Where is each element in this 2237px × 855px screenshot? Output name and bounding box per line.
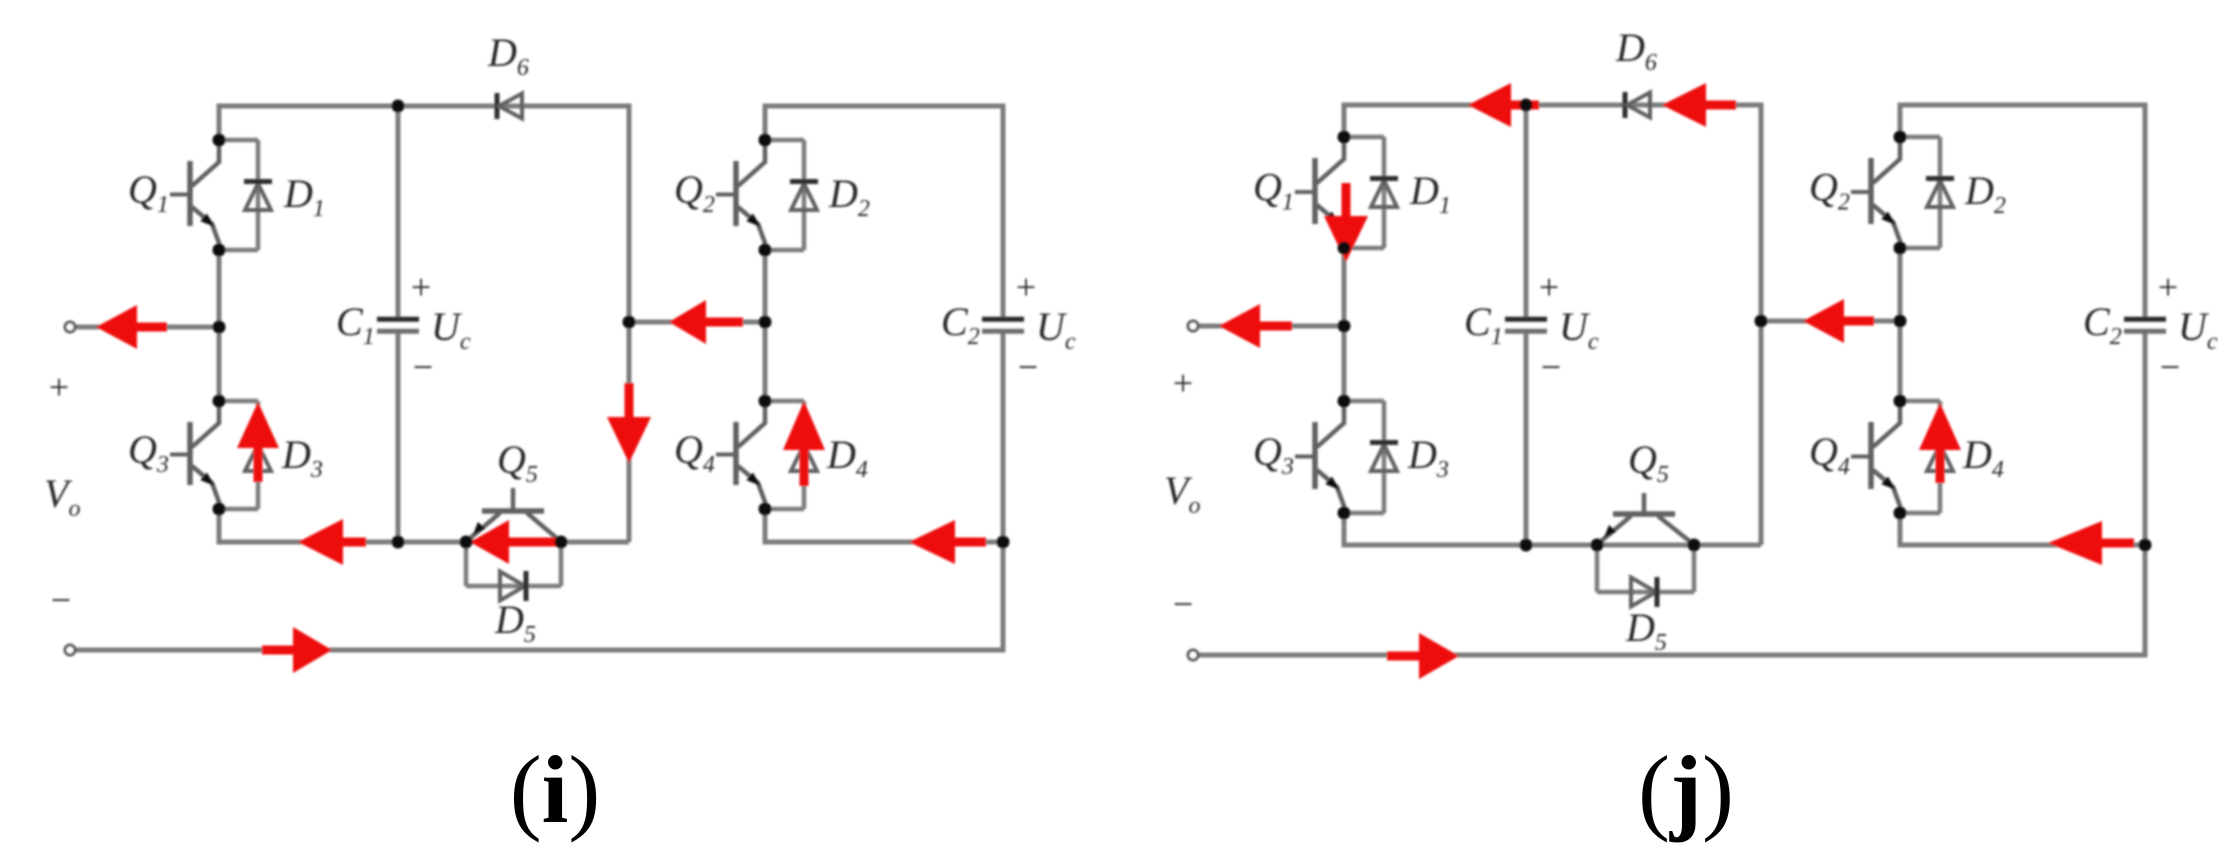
wire C2 column lower (j) bbox=[2143, 333, 2148, 658]
diode D4b bbox=[1900, 401, 1954, 513]
wire left rail Q1-Q3 (j) bbox=[1342, 248, 1347, 401]
terminal output − (j) bbox=[1188, 650, 1198, 660]
node Q3 collector (j) bbox=[1338, 395, 1351, 408]
wire right rail upper (i) bbox=[763, 104, 768, 141]
current arrow D3 up (i) bbox=[237, 402, 279, 448]
wire right riser of D6 (j) bbox=[1759, 103, 1764, 546]
node Q3 collector (i) bbox=[213, 395, 226, 408]
wire right rail upper (j) bbox=[1898, 103, 1903, 138]
wire right rail Q2-Q4 (i) bbox=[763, 250, 768, 401]
wire C2 column (j) bbox=[2143, 103, 2148, 320]
node Q4 collector (i) bbox=[759, 395, 772, 408]
current arrow bottom right left (i) bbox=[909, 520, 955, 564]
wire C1 top lead bbox=[396, 106, 401, 317]
node C2 bottom (j) bbox=[2139, 539, 2152, 552]
svg-text:+: + bbox=[1539, 267, 1559, 307]
transistor Q5 bbox=[466, 488, 561, 542]
transistor Q4 bbox=[716, 401, 765, 509]
wire C1b bottom lead bbox=[1524, 333, 1529, 545]
svg-text:−: − bbox=[1173, 584, 1193, 624]
node C1 bottom (i) bbox=[392, 536, 405, 549]
wire left rail Q1-Q3 (i) bbox=[217, 250, 222, 401]
node right rail mid (j) bbox=[1894, 315, 1907, 328]
node Q2 emitter (j) bbox=[1894, 242, 1907, 255]
wire lower bus right section (j) bbox=[1898, 543, 2146, 548]
node Q2 collector (j) bbox=[1894, 131, 1907, 144]
node C1 top (i) bbox=[392, 100, 405, 113]
transistor Q3b bbox=[1295, 401, 1344, 513]
node C1 bottom (j) bbox=[1520, 539, 1533, 552]
diode D1b bbox=[1344, 137, 1398, 248]
svg-text:(i): (i) bbox=[510, 736, 601, 843]
diode D1 bbox=[219, 140, 272, 250]
wire C2 column lower (i) bbox=[1001, 333, 1006, 653]
wire mid link (j) bbox=[1761, 319, 1900, 324]
svg-text:+: + bbox=[411, 267, 431, 307]
wire output + lead (i) bbox=[74, 325, 219, 330]
wire C1 bottom lead bbox=[396, 333, 401, 542]
svg-text:(j): (j) bbox=[1638, 736, 1734, 843]
node Q1 emitter (i) bbox=[213, 244, 226, 257]
svg-text:−: − bbox=[2160, 347, 2180, 387]
transistor Q3 bbox=[170, 401, 219, 509]
diode D2b bbox=[1900, 137, 1954, 248]
transistor Q4b bbox=[1851, 401, 1900, 513]
diode D6b bbox=[1625, 92, 1650, 118]
wire output + lead (j) bbox=[1197, 324, 1344, 329]
wire left rail lower (i) bbox=[217, 509, 222, 545]
wire mid link (i) bbox=[629, 320, 765, 325]
node Q5 right (i) bbox=[555, 536, 568, 549]
terminal output − (i) bbox=[65, 645, 75, 655]
transistor Q1b bbox=[1295, 137, 1344, 248]
diode D2 bbox=[765, 140, 818, 250]
current arrow mid link left (j) bbox=[1803, 299, 1844, 343]
node Q1 emitter (j) bbox=[1338, 242, 1351, 255]
capacitor C2 bbox=[982, 319, 1024, 331]
node output junction (i) bbox=[213, 321, 226, 334]
node Q4 collector (j) bbox=[1894, 395, 1907, 408]
terminal output + (j) bbox=[1188, 321, 1198, 331]
capacitor C1b bbox=[1505, 319, 1547, 331]
wire right rail Q2-Q4 (j) bbox=[1898, 248, 1903, 401]
wire top bus (i) bbox=[219, 104, 629, 109]
node Q5 left (j) bbox=[1591, 539, 1604, 552]
current arrow Q1 down (j) bbox=[1324, 216, 1368, 262]
node Q5 left (i) bbox=[460, 536, 473, 549]
diode D3 bbox=[219, 401, 272, 509]
transistor Q5b bbox=[1597, 493, 1694, 545]
svg-text:+: + bbox=[1016, 267, 1036, 307]
capacitor C1 bbox=[377, 319, 419, 331]
wire lower bus (i) bbox=[217, 540, 630, 545]
wire top bus (j) bbox=[1344, 103, 1761, 108]
current arrow riser down (i) bbox=[607, 417, 651, 463]
wire right riser of D6 (i) bbox=[627, 104, 632, 543]
current arrow bottom right left (j) bbox=[2048, 521, 2102, 565]
current arrow D4 up (j) bbox=[1919, 403, 1961, 450]
current arrow output (i) bbox=[96, 305, 137, 349]
current arrow output (j) bbox=[1219, 304, 1260, 348]
svg-text:+: + bbox=[49, 367, 69, 407]
diode D5b bbox=[1597, 545, 1694, 607]
current arrow D4 up (i) bbox=[783, 401, 825, 450]
svg-text:−: − bbox=[413, 347, 433, 387]
current arrow lower bus left (i) bbox=[298, 519, 343, 565]
svg-text:−: − bbox=[1541, 347, 1561, 387]
current arrow Q5 left (i) bbox=[470, 520, 509, 564]
node Q2 collector (i) bbox=[759, 134, 772, 147]
node Q1 collector (j) bbox=[1338, 131, 1351, 144]
node C1 top (j) bbox=[1520, 99, 1533, 112]
wire C1b top lead bbox=[1524, 105, 1529, 317]
svg-text:+: + bbox=[2158, 267, 2178, 307]
wire lower bus (j) bbox=[1342, 543, 1762, 548]
current arrow top bus left 1 (j) bbox=[1468, 83, 1511, 127]
node Q4 emitter (i) bbox=[759, 503, 772, 516]
diode D5 bbox=[466, 542, 561, 601]
wire top bus right section (j) bbox=[1900, 103, 2145, 108]
wire right rail lower (j) bbox=[1898, 513, 1903, 548]
wire left rail upper (j) bbox=[1342, 103, 1347, 138]
transistor Q2 bbox=[716, 140, 765, 250]
node Q2 emitter (i) bbox=[759, 244, 772, 257]
current arrow bottom return right (i) bbox=[293, 627, 332, 673]
diode D3b bbox=[1344, 401, 1398, 513]
node Q3 emitter (j) bbox=[1338, 507, 1351, 520]
wire lower bus right section (i) bbox=[763, 540, 1004, 545]
capacitor C2b bbox=[2124, 319, 2166, 331]
wire left rail lower (j) bbox=[1342, 513, 1347, 548]
transistor Q2b bbox=[1851, 137, 1900, 248]
transistor Q1 bbox=[170, 140, 219, 250]
diode D4 bbox=[765, 401, 818, 509]
current arrow bottom return right (j) bbox=[1419, 633, 1459, 679]
node Q1 collector (i) bbox=[213, 134, 226, 147]
svg-text:−: − bbox=[1018, 347, 1038, 387]
wire top bus right section (i) bbox=[765, 104, 1003, 109]
current arrow mid link left (i) bbox=[669, 300, 706, 344]
diode D6 bbox=[497, 93, 522, 119]
terminal output + (i) bbox=[65, 322, 75, 332]
wire bottom return (j) bbox=[1197, 653, 2145, 658]
node Q5 right (j) bbox=[1688, 539, 1701, 552]
node Q3 emitter (i) bbox=[213, 503, 226, 516]
node riser mid (j) bbox=[1755, 315, 1768, 328]
current arrow top bus left 2 (j) bbox=[1662, 83, 1706, 127]
node Q4 emitter (j) bbox=[1894, 507, 1907, 520]
svg-text:+: + bbox=[1173, 363, 1193, 403]
node right rail mid (i) bbox=[759, 316, 772, 329]
svg-text:−: − bbox=[51, 580, 71, 620]
node C2 bottom (i) bbox=[997, 536, 1010, 549]
wire C2 column (i) bbox=[1001, 104, 1006, 320]
wire right rail lower (i) bbox=[763, 509, 768, 545]
wire left rail upper (i) bbox=[217, 104, 222, 141]
wire bottom return (i) bbox=[74, 648, 1003, 653]
node output junction (j) bbox=[1338, 320, 1351, 333]
node riser mid (i) bbox=[623, 316, 636, 329]
